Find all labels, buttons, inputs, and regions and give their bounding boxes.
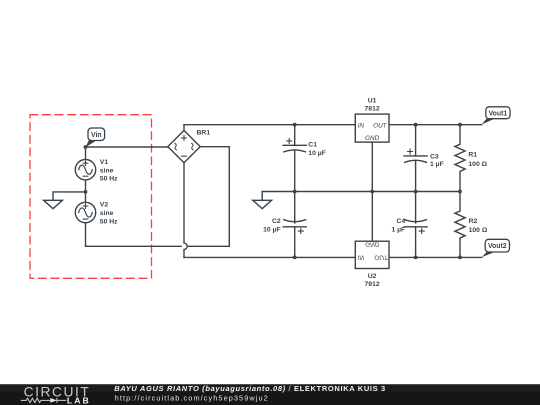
svg-text:10 µF: 10 µF bbox=[263, 227, 281, 234]
capacitor C2 bbox=[294, 192, 296, 224]
capacitor C4 bbox=[415, 192, 417, 224]
svg-text:sine: sine bbox=[100, 167, 114, 174]
junction C3/C4 ground rail bbox=[414, 190, 418, 194]
svg-text:1 µF: 1 µF bbox=[430, 161, 444, 168]
source V2 bbox=[75, 202, 95, 222]
svg-text:V2: V2 bbox=[100, 202, 109, 209]
svg-text:7912: 7912 bbox=[365, 281, 380, 288]
svg-text:U2: U2 bbox=[368, 273, 377, 280]
svg-text:OUT: OUT bbox=[374, 253, 389, 260]
wire negative rail to U2 IN bbox=[184, 256, 355, 258]
junction V1/V2/ground bbox=[84, 190, 88, 194]
junction C1 top rail bbox=[293, 123, 297, 127]
ground (left, at V1/V2 junction) bbox=[53, 192, 86, 200]
resistor R2 bbox=[455, 192, 465, 258]
source V1 bbox=[75, 160, 95, 180]
svg-text:sine: sine bbox=[100, 210, 114, 217]
svg-text:R2: R2 bbox=[469, 218, 478, 225]
wire BR1 top stub bbox=[183, 125, 185, 131]
svg-text:http://circuitlab.com/cyh5ep35: http://circuitlab.com/cyh5ep359wju2 bbox=[115, 394, 269, 403]
junction U1-GND/U2-GND ground rail bbox=[370, 190, 374, 194]
junction C1/C2 ground rail bbox=[293, 190, 297, 194]
svg-text:Vin: Vin bbox=[91, 132, 102, 139]
capacitor C1 bbox=[294, 125, 296, 146]
node Vout2 flag bbox=[482, 239, 510, 257]
svg-text:C1: C1 bbox=[308, 142, 317, 149]
svg-text:10 µF: 10 µF bbox=[308, 150, 326, 157]
junction R1/R2 ground rail bbox=[458, 190, 462, 194]
svg-text:BAYU AGUS RIANTO (bayuagusrian: BAYU AGUS RIANTO (bayuagusrianto.08) / E… bbox=[114, 384, 386, 393]
wire U2 GND up to ground rail bbox=[371, 192, 373, 242]
regulator U2 7912 bbox=[355, 241, 389, 268]
wire U2 OUT to Vout2 bbox=[389, 256, 482, 258]
wire V1 bottom to V2 top bbox=[85, 180, 87, 203]
junction C3 top rail bbox=[414, 123, 418, 127]
svg-text:GND: GND bbox=[365, 135, 380, 142]
ground (mid rail) bbox=[261, 192, 263, 201]
wire U1 GND down to ground rail bbox=[371, 142, 373, 191]
wire Vin node to BR1 left bbox=[86, 146, 168, 148]
wire top rail BR1 to U1 IN bbox=[184, 124, 355, 126]
svg-text:Vout2: Vout2 bbox=[488, 243, 507, 250]
regulator U1 7812 bbox=[355, 114, 389, 142]
svg-text:OUT: OUT bbox=[373, 122, 388, 129]
node Vout1 flag bbox=[482, 107, 510, 125]
annotation red dashed box bbox=[30, 115, 152, 279]
svg-text:R1: R1 bbox=[468, 152, 477, 159]
svg-text:Vout1: Vout1 bbox=[489, 110, 508, 117]
svg-text:C4: C4 bbox=[396, 218, 405, 225]
CircuitLab logo bbox=[21, 385, 91, 405]
junction C2 bottom rail bbox=[293, 256, 297, 260]
wire ground rail bbox=[262, 191, 460, 193]
wire V2 bottom down bbox=[85, 223, 87, 247]
wire Vin node to V1 top bbox=[85, 147, 87, 160]
svg-text:V1: V1 bbox=[100, 159, 109, 166]
bridge rectifier BR1 bbox=[168, 130, 200, 162]
svg-text:C2: C2 bbox=[272, 218, 281, 225]
junction at Vin node bbox=[84, 145, 88, 149]
svg-text:BR1: BR1 bbox=[197, 129, 211, 136]
svg-text:U1: U1 bbox=[368, 98, 377, 105]
svg-text:50 Hz: 50 Hz bbox=[100, 176, 118, 183]
capacitor C3 bbox=[415, 125, 417, 156]
svg-text:GND: GND bbox=[365, 241, 380, 248]
wire AC bottom run to BR1 right (with gap at hop) bbox=[86, 245, 182, 247]
wire BR1 bottom down with hop bbox=[184, 163, 187, 258]
pin labels U2 (mirrored) bbox=[358, 241, 389, 261]
svg-text:50 Hz: 50 Hz bbox=[100, 219, 118, 226]
svg-text:LAB: LAB bbox=[67, 395, 91, 405]
svg-text:7812: 7812 bbox=[365, 106, 380, 113]
junction R2 bottom rail bbox=[458, 256, 462, 260]
junction R1 top rail bbox=[458, 123, 462, 127]
svg-text:IN: IN bbox=[358, 253, 365, 260]
svg-text:IN: IN bbox=[358, 122, 365, 129]
footer bar bbox=[0, 384, 540, 405]
wire U1 OUT to Vout1 bbox=[389, 124, 482, 126]
svg-text:1 µF: 1 µF bbox=[391, 226, 405, 233]
svg-text:100 Ω: 100 Ω bbox=[468, 161, 487, 168]
junction C4 bottom rail bbox=[414, 256, 418, 260]
svg-text:100 Ω: 100 Ω bbox=[469, 227, 488, 234]
resistor R1 bbox=[455, 125, 465, 192]
node Vin flag bbox=[86, 128, 105, 147]
svg-text:C3: C3 bbox=[430, 153, 439, 160]
